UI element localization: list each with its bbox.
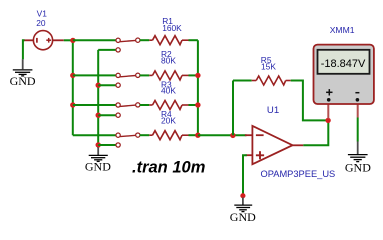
wire R4 to right bus bbox=[189, 134, 198, 136]
junction main bus R2 row bbox=[70, 73, 75, 78]
svg-text:160K: 160K bbox=[162, 23, 182, 33]
svg-text:GND: GND bbox=[230, 210, 256, 224]
meter + lead bbox=[327, 100, 329, 119]
junction feedback tee bbox=[230, 133, 235, 138]
svg-text:U1: U1 bbox=[267, 105, 279, 116]
wire feedback left vertical bbox=[232, 81, 234, 136]
junction second bus R4 throw bbox=[96, 142, 101, 147]
wire output to meter node bbox=[303, 120, 328, 145]
wire R4 switch to resistor bbox=[140, 134, 150, 136]
ground symbol GND middle bbox=[89, 155, 108, 161]
voltage source V1 bbox=[24, 31, 64, 50]
svg-text:GND: GND bbox=[85, 160, 111, 174]
wire R5 right down to output node bbox=[291, 81, 328, 121]
svg-text:20K: 20K bbox=[161, 115, 176, 125]
wire non-inverting input to ground bbox=[243, 155, 247, 196]
wire row R2 off-throw stub bbox=[98, 84, 116, 86]
wire R5 left bbox=[233, 80, 252, 82]
svg-text:XMM1: XMM1 bbox=[330, 25, 355, 35]
ground pin (left) bbox=[22, 59, 24, 69]
wire R1 to right bus bbox=[189, 39, 198, 41]
svg-text:V1: V1 bbox=[37, 8, 48, 18]
wire right bus vertical bbox=[197, 40, 199, 135]
meter - lead red part bbox=[357, 100, 359, 118]
junction output/feedback/meter bbox=[325, 118, 330, 123]
resistor R3 bbox=[149, 101, 188, 110]
op-amp U1 bbox=[245, 126, 303, 164]
junction second bus R2 throw bbox=[96, 83, 101, 88]
junction V1/R1 row bbox=[70, 38, 75, 43]
svg-text:OPAMP3PEE_US: OPAMP3PEE_US bbox=[261, 169, 336, 179]
svg-text:40K: 40K bbox=[161, 86, 176, 96]
wire R2 to right bus bbox=[189, 74, 198, 76]
svg-text:GND: GND bbox=[10, 74, 36, 88]
wire row R4 pole bbox=[73, 134, 116, 136]
svg-text:15K: 15K bbox=[261, 62, 276, 72]
resistor R2 bbox=[149, 71, 188, 80]
wire row R1 off-throw stub bbox=[98, 49, 116, 51]
junction at opamp ground bbox=[240, 193, 245, 198]
ground pin (op-amp) bbox=[242, 198, 244, 205]
wire row R1 pole bbox=[73, 39, 116, 41]
svg-text:20: 20 bbox=[36, 18, 46, 28]
wire row R3 off-throw stub bbox=[98, 114, 116, 116]
ground pin (middle) bbox=[97, 147, 99, 155]
wire row R3 pole bbox=[73, 104, 116, 106]
wire R3 to right bus bbox=[189, 104, 198, 106]
svg-text:-18.847V: -18.847V bbox=[321, 58, 366, 70]
wire row R2 pole bbox=[73, 74, 116, 76]
resistor R4 bbox=[149, 131, 188, 140]
ground symbol GND right bbox=[348, 155, 368, 162]
ground symbol GND left bbox=[13, 70, 33, 76]
resistor R5 bbox=[252, 76, 291, 85]
wire second bus vertical (switch off-throws to ground) bbox=[97, 50, 99, 148]
meter - lead green part bbox=[357, 118, 359, 142]
wire V1 left to ground bbox=[23, 40, 25, 59]
resistor R1 bbox=[149, 36, 188, 45]
wire V1 right to main bus bbox=[64, 39, 73, 41]
ground pin (right) bbox=[357, 141, 359, 154]
svg-text:80K: 80K bbox=[161, 56, 176, 66]
wire main bus vertical bbox=[72, 40, 74, 135]
wire R2 switch to resistor bbox=[140, 74, 150, 76]
svg-text:.tran 10m: .tran 10m bbox=[132, 159, 205, 177]
switch J3 bbox=[116, 103, 140, 118]
junction main bus R3 row bbox=[70, 102, 75, 107]
wire R1 switch to resistor bbox=[140, 39, 150, 41]
wire R3 switch to resistor bbox=[140, 104, 150, 106]
ground symbol GND op-amp bbox=[234, 205, 252, 212]
multimeter XMM1 bbox=[314, 45, 374, 104]
switch J1 bbox=[116, 38, 140, 52]
junction right bus R2 bbox=[195, 73, 200, 78]
wire inverting input row bbox=[198, 134, 247, 136]
junction right bus R3 bbox=[195, 102, 200, 107]
switch J2 bbox=[116, 73, 140, 87]
wire row R4 off-throw stub bbox=[98, 144, 116, 146]
svg-text:GND: GND bbox=[345, 161, 371, 175]
junction right bus R4 / inverting node bbox=[195, 133, 200, 138]
junction second bus R3 throw bbox=[96, 113, 101, 118]
switch J4 bbox=[116, 133, 140, 147]
